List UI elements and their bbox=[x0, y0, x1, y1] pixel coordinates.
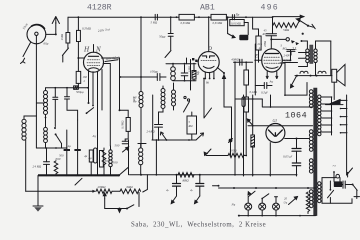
svg-text:6RΩ: 6RΩ bbox=[127, 185, 134, 189]
wire coil tap bbox=[36, 102, 43, 104]
svg-text:1MΩ: 1MΩ bbox=[60, 33, 64, 40]
arrowhead into pot bbox=[92, 190, 96, 193]
wire plate E bbox=[272, 17, 274, 33]
choke b bbox=[318, 71, 326, 73]
wire x141 down bbox=[140, 77, 142, 92]
band switch arm right bbox=[87, 108, 94, 114]
resistor R1 bbox=[66, 17, 70, 48]
svg-text:50μμ: 50μμ bbox=[159, 35, 166, 39]
svg-text:40RΩ: 40RΩ bbox=[231, 58, 239, 62]
HT secondary winding bbox=[318, 95, 321, 136]
svg-text:Hı: Hı bbox=[205, 81, 209, 85]
capacitor 24 bbox=[155, 112, 163, 140]
switch contacts x185 bbox=[184, 96, 190, 112]
arrow on chord bbox=[247, 119, 252, 125]
svg-text:20RΩ: 20RΩ bbox=[98, 185, 106, 189]
electrolytic 2 bbox=[195, 175, 204, 204]
capacitor above E bbox=[266, 34, 277, 49]
svg-text:4μ: 4μ bbox=[68, 144, 72, 148]
svg-text:600: 600 bbox=[56, 157, 61, 161]
electrolytic 1 bbox=[171, 175, 180, 204]
mains primary windings low bbox=[309, 159, 313, 173]
wire pot right leg bbox=[138, 193, 140, 207]
choke coil feed bbox=[138, 144, 143, 175]
volume control line bbox=[26, 190, 94, 192]
padding capacitor Ca bbox=[53, 88, 58, 127]
tube D bbox=[198, 52, 219, 73]
svg-text:ND: ND bbox=[132, 97, 136, 103]
mains loop bbox=[322, 178, 352, 204]
capacitor 0.5uF bbox=[255, 83, 272, 89]
wire y140 bbox=[152, 139, 196, 141]
svg-text:8RΩ: 8RΩ bbox=[183, 179, 190, 183]
svg-text:4128R: 4128R bbox=[87, 4, 112, 13]
wire y62 bbox=[234, 61, 253, 63]
wire antenna to coupler bbox=[46, 33, 56, 35]
wire coil top bus bbox=[166, 63, 196, 65]
svg-text:100μμ: 100μμ bbox=[150, 70, 158, 74]
wire HT bus y99 bbox=[235, 98, 262, 100]
heater choke bbox=[109, 146, 112, 175]
capacitor 100pF bbox=[157, 74, 160, 81]
pointer arrow 500 bbox=[123, 147, 129, 152]
svg-text:Nɣ: Nɣ bbox=[231, 203, 236, 207]
resistor 5k zigzag bbox=[273, 23, 297, 28]
lamp 1 switch bbox=[248, 191, 255, 197]
connector marks bbox=[291, 40, 295, 43]
wire coil link bbox=[138, 143, 146, 145]
svg-text:AB1: AB1 bbox=[200, 4, 215, 13]
smoothing cap 2 bbox=[292, 163, 300, 176]
wire pot to 6k bbox=[112, 190, 120, 192]
lamp 2 switch bbox=[262, 194, 269, 199]
mains plug circle bbox=[336, 174, 340, 178]
switch arrow on y140 bbox=[160, 132, 166, 140]
grid leak (hatched) bbox=[74, 86, 79, 89]
wire jog to phi bbox=[224, 107, 232, 139]
antenna coil L2 bbox=[44, 91, 48, 115]
svg-text:60μ: 60μ bbox=[44, 42, 49, 46]
barretter 20 bbox=[306, 192, 309, 214]
wire x252.7 bbox=[252, 95, 254, 135]
pickup loop bbox=[280, 63, 307, 95]
svg-text:Mμ: Mμ bbox=[196, 71, 200, 76]
speaker magnet bbox=[326, 99, 344, 105]
wire y77 bbox=[120, 76, 166, 78]
wire 0.01 box right bbox=[244, 23, 248, 35]
tube V1 top cap bbox=[93, 45, 95, 53]
phi mark bbox=[229, 139, 233, 143]
resistor 2M box bbox=[253, 17, 262, 62]
switch arm right of y140 bbox=[196, 133, 204, 140]
capacitor C3 bbox=[44, 148, 50, 175]
capacitor 50pF tap bbox=[168, 17, 173, 50]
svg-text:2MΩ: 2MΩ bbox=[263, 40, 267, 47]
mains switch left bbox=[328, 181, 334, 203]
mains series cap bbox=[340, 178, 353, 189]
voltage selector bar bbox=[346, 95, 348, 175]
wire coil bottom bus bbox=[173, 80, 196, 82]
IF coil primary bbox=[171, 64, 176, 81]
svg-text:500: 500 bbox=[115, 144, 120, 148]
svg-text:Saba, 230_WL, Wechselstrom,: Saba, 230_WL, Wechselstrom, 2 Kreise bbox=[131, 222, 266, 229]
svg-text:RΩ: RΩ bbox=[188, 124, 194, 128]
wire tube D cathode down bbox=[204, 79, 212, 119]
output transformer secondary bbox=[314, 49, 317, 63]
transformer left stubs bbox=[299, 53, 306, 59]
resistor 0.01M box bbox=[228, 17, 245, 33]
svg-text:Aɣ: Aɣ bbox=[269, 80, 274, 84]
output transformer primary bbox=[306, 49, 309, 63]
wire tube D plate right bbox=[217, 68, 225, 108]
hum loop bbox=[105, 199, 127, 209]
wire switch to bus bbox=[61, 144, 63, 149]
mains link top bbox=[322, 177, 336, 179]
wire L1 to volume bus bbox=[25, 140, 27, 191]
resistor 600 (vertical zigzag) bbox=[54, 161, 58, 176]
barretter arrow bbox=[289, 197, 298, 205]
wire x330.8 down bbox=[330, 41, 332, 76]
resistor 6k bbox=[120, 189, 141, 194]
heater bus bbox=[219, 187, 316, 189]
switch below bus bbox=[75, 178, 82, 185]
tube D pins bbox=[205, 72, 214, 79]
capacitor Sr series bbox=[232, 15, 234, 20]
pot wiper bbox=[103, 193, 106, 199]
tube V1 pins bbox=[89, 70, 103, 176]
jack circle bbox=[286, 38, 289, 41]
capacitor 40k coupling bbox=[240, 59, 242, 65]
bottom HT bus right bbox=[130, 174, 297, 176]
transformer bottom wires bbox=[299, 63, 316, 76]
switch S2 bbox=[62, 48, 68, 62]
heater line 300 bbox=[204, 149, 228, 156]
ground bbox=[33, 176, 43, 212]
speaker magnet lead bbox=[333, 82, 335, 99]
wire to 1064 label bbox=[262, 99, 312, 107]
wave band switch bbox=[56, 134, 62, 143]
earth switch arm bbox=[21, 43, 31, 64]
selector contacts bbox=[341, 100, 348, 132]
transformer top wires bbox=[302, 41, 331, 49]
wire x156.4 bbox=[155, 140, 157, 175]
svg-text:5RΩ: 5RΩ bbox=[283, 28, 290, 32]
dial lamp 2 bbox=[259, 199, 266, 216]
selector arm bbox=[347, 168, 353, 175]
secondary winding low bbox=[318, 182, 321, 203]
switch 50pF bbox=[165, 51, 171, 58]
antenna bbox=[52, 17, 59, 35]
wire tube V1 anode side bbox=[103, 64, 110, 147]
wave trap (dark) bbox=[239, 35, 248, 40]
svg-text:2 L: 2 L bbox=[292, 47, 297, 51]
mains primary windings mid bbox=[309, 130, 313, 152]
wire to antenna coil bbox=[24, 116, 36, 119]
wire x235 long bbox=[234, 62, 236, 175]
resistor 5k box bbox=[187, 112, 197, 140]
wire coupler down bbox=[35, 36, 37, 117]
wire x128.5 to bus bbox=[128, 140, 130, 175]
node x141 junction bbox=[140, 76, 142, 78]
svg-text:Sr: Sr bbox=[236, 12, 240, 17]
resistor 0.1M box bbox=[125, 118, 130, 140]
wire x270.5 bbox=[270, 95, 272, 107]
output transformer core bbox=[310, 45, 313, 64]
speaker feed bus bbox=[295, 75, 332, 77]
damping resistor (hatched) bbox=[192, 65, 196, 81]
wire x77.6 bbox=[77, 120, 79, 175]
feedthrough cap b bbox=[74, 149, 80, 151]
wire grid left bbox=[190, 60, 192, 91]
tonearm switch arrow bbox=[291, 76, 297, 88]
svg-text:E: E bbox=[254, 55, 258, 60]
capacitor 3Ra series bbox=[155, 14, 157, 20]
capacitor across coil bbox=[181, 65, 188, 81]
choke a bbox=[300, 71, 308, 73]
wire screen bbox=[102, 58, 120, 110]
wire rectifier bottom bbox=[269, 143, 271, 176]
wire x66.8 bbox=[66, 130, 68, 175]
heater return bus bbox=[239, 215, 316, 217]
electrolytic 4uF bbox=[89, 150, 93, 175]
electrolytic block bbox=[100, 151, 104, 168]
tube E bbox=[262, 49, 283, 72]
svg-text:500: 500 bbox=[59, 154, 64, 158]
svg-text:Uɣ: Uɣ bbox=[284, 201, 288, 205]
secondary coil a bbox=[161, 86, 165, 109]
switch pickup bbox=[296, 18, 315, 28]
switch GW bbox=[228, 34, 235, 38]
svg-text:240V: 240V bbox=[284, 54, 291, 58]
svg-text:43: 43 bbox=[259, 46, 263, 50]
arrow down bbox=[118, 209, 121, 213]
wire x186.5 bbox=[186, 58, 188, 64]
voltage taps bbox=[321, 97, 332, 132]
secondary coil b bbox=[172, 83, 176, 110]
resistor 0.8M box a bbox=[179, 14, 194, 20]
switch at thick bus end bbox=[119, 167, 128, 175]
antenna coupling coil A bbox=[27, 25, 46, 44]
selector link bbox=[331, 97, 333, 135]
wire rectifier output bbox=[285, 138, 309, 140]
svg-text:Aɣ: Aɣ bbox=[92, 134, 97, 138]
svg-text:1064: 1064 bbox=[285, 111, 307, 121]
rectifier feed cartridge bbox=[242, 95, 245, 176]
resistor bias bbox=[76, 58, 81, 89]
resistor 300 zigzag bbox=[228, 153, 244, 157]
svg-text:24·RΩ: 24·RΩ bbox=[147, 130, 156, 134]
choke NF Dr bbox=[139, 92, 143, 108]
capacitor 500 bbox=[122, 139, 128, 144]
tube E pins bbox=[266, 72, 278, 79]
svg-text:4μ: 4μ bbox=[84, 154, 88, 158]
resistor R2 bbox=[77, 17, 81, 58]
svg-text:500: 500 bbox=[113, 161, 118, 165]
antenna coil L1 bbox=[22, 119, 26, 140]
dial lamp 3 bbox=[273, 197, 280, 216]
mains switch right bbox=[353, 185, 360, 199]
smoothing cap 1 bbox=[292, 139, 301, 163]
heater bus left bbox=[213, 185, 219, 187]
padding capacitor Cb bbox=[65, 88, 78, 120]
wire coupler line to bus bbox=[35, 116, 37, 148]
wire coils down bbox=[153, 95, 163, 140]
svg-text:500μμ: 500μμ bbox=[76, 90, 84, 94]
tube V1 HN bbox=[84, 52, 104, 72]
wire y39.4 to jack bbox=[271, 38, 286, 40]
svg-text:24 RΩ: 24 RΩ bbox=[33, 165, 42, 169]
wire anode drop tube D bbox=[208, 17, 210, 51]
mains heater winding bbox=[309, 190, 313, 208]
main chassis bus (thick) bbox=[38, 174, 119, 176]
top HT bus bbox=[68, 16, 273, 18]
node antenna junction bbox=[55, 33, 57, 35]
rectifier Gl bbox=[266, 124, 285, 143]
capacitor at 2L bbox=[287, 50, 295, 55]
wire arrow feed bbox=[273, 15, 304, 18]
mains primary windings upper bbox=[309, 90, 313, 108]
tube D grid caps bbox=[192, 58, 194, 60]
feedthrough cap a bbox=[64, 149, 70, 151]
switch arm bottom bbox=[127, 205, 134, 209]
wire E plate right bbox=[282, 50, 290, 60]
mains transformer core bbox=[314, 88, 317, 216]
dial lamp 1 bbox=[245, 197, 252, 216]
wire bus y148 bbox=[36, 147, 67, 149]
resistor 600 below tube bbox=[102, 148, 106, 175]
coil L3 bbox=[44, 127, 48, 142]
node cathode join bbox=[77, 57, 79, 59]
fuse cartridge bbox=[94, 148, 97, 163]
anode chord wire bbox=[248, 125, 313, 127]
svg-text:5 RΩ: 5 RΩ bbox=[151, 21, 158, 25]
fuse Rel (dark) bbox=[334, 181, 342, 187]
potentiometer 20k bbox=[96, 189, 112, 193]
fuse hatched bbox=[251, 135, 255, 176]
speaker bbox=[332, 64, 345, 85]
wire E left cathode bbox=[254, 44, 256, 95]
resistor box chain bbox=[244, 62, 249, 155]
svg-text:H: H bbox=[83, 46, 90, 54]
wire top bus drop x141 bbox=[140, 17, 142, 77]
resistor 8k zigzag bbox=[178, 173, 194, 178]
grid bus y87.8 bbox=[46, 88, 89, 90]
resistor 0.8M box b bbox=[211, 14, 226, 20]
node coil taps bbox=[45, 117, 47, 119]
svg-text:N: N bbox=[95, 46, 101, 54]
svg-text:496: 496 bbox=[261, 4, 279, 13]
wire 6k up bbox=[143, 175, 148, 192]
